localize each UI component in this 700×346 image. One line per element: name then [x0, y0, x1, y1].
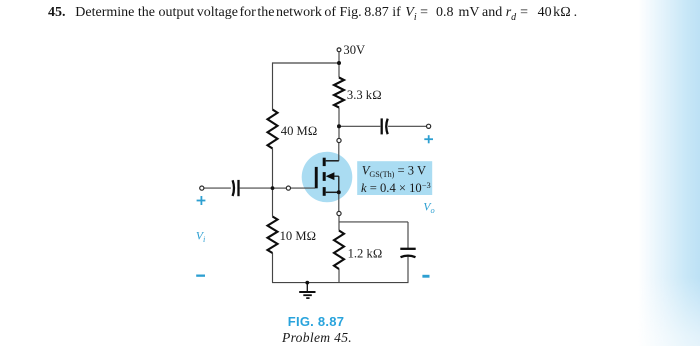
svg-text:1.2 kΩ: 1.2 kΩ: [348, 246, 383, 260]
svg-text:Vo: Vo: [423, 200, 434, 214]
svg-text:3.3 kΩ: 3.3 kΩ: [347, 88, 382, 102]
svg-text:Vi: Vi: [196, 230, 206, 244]
svg-text:10 MΩ: 10 MΩ: [280, 229, 317, 243]
svg-text:40 MΩ: 40 MΩ: [281, 124, 318, 138]
svg-text:FIG. 8.87: FIG. 8.87: [288, 314, 344, 329]
svg-text:Problem 45.: Problem 45.: [281, 330, 352, 345]
svg-text:30V: 30V: [343, 43, 365, 57]
svg-text:k = 0.4 × 10−3: k = 0.4 × 10−3: [361, 180, 431, 195]
